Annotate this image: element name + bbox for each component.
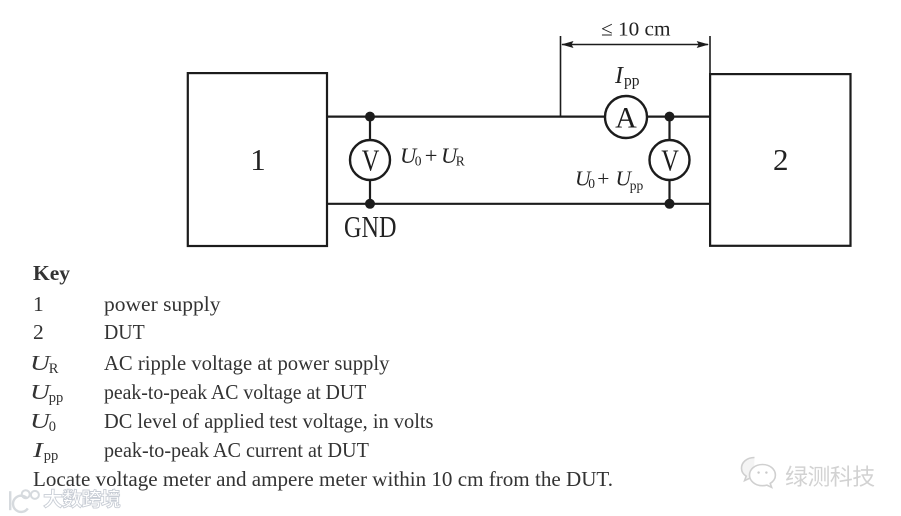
wire vertical branch through voltmeter V1 bbox=[369, 117, 371, 204]
dimension extension line right above box 2 bbox=[709, 36, 711, 74]
svg-text:1: 1 bbox=[250, 142, 266, 177]
junction node bottom-right bbox=[665, 199, 675, 209]
junction node bottom-left bbox=[365, 199, 375, 209]
svg-text:2: 2 bbox=[773, 142, 789, 177]
key row Upp bbox=[30, 382, 63, 404]
note line bbox=[33, 469, 613, 491]
dimension extension line left bbox=[560, 36, 562, 116]
wire bottom ground line from box 1 to box 2 bbox=[327, 203, 710, 205]
wire vertical branch through voltmeter V2 bbox=[668, 117, 670, 204]
watermark: lvce keji icon + text (decorative) bbox=[739, 452, 899, 492]
ammeter A on top wire bbox=[605, 96, 647, 138]
svg-text:≤ 10 cm: ≤ 10 cm bbox=[601, 19, 671, 41]
power supply box 1 bbox=[188, 73, 327, 246]
svg-text:U0+Upp: U0+Upp bbox=[575, 167, 644, 193]
svg-text:Ipp: Ipp bbox=[614, 63, 640, 89]
voltmeter V2 at DUT bbox=[650, 140, 690, 180]
key row Ipp bbox=[33, 440, 58, 462]
dimension arrow line bbox=[561, 41, 709, 48]
junction node top-right bbox=[665, 112, 675, 122]
key row U0 bbox=[30, 411, 56, 433]
key row UR bbox=[30, 353, 58, 375]
svg-text:A: A bbox=[615, 102, 637, 135]
key row 2 bbox=[33, 322, 44, 344]
voltmeter V1 at power supply bbox=[350, 140, 390, 180]
junction node top-left bbox=[365, 112, 375, 122]
svg-text:GND: GND bbox=[344, 209, 397, 244]
svg-text:V: V bbox=[661, 143, 679, 177]
key heading bbox=[33, 263, 70, 285]
wire top supply line from box 1 to box 2 bbox=[327, 115, 710, 117]
svg-text:V: V bbox=[362, 143, 380, 177]
watermark: dashu kuajing logo + text (decorative) bbox=[6, 488, 136, 514]
key row 1 bbox=[33, 294, 44, 316]
DUT box 2 bbox=[710, 74, 850, 246]
svg-text:U0+UR: U0+UR bbox=[400, 143, 465, 168]
